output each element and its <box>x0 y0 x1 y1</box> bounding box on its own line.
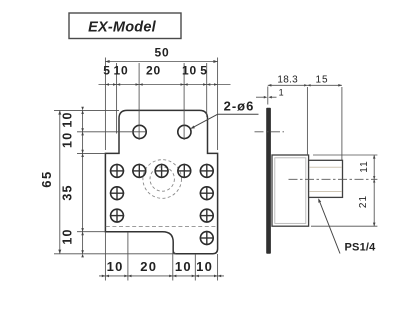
svg-text:10: 10 <box>114 64 129 78</box>
svg-text:5: 5 <box>103 64 110 78</box>
svg-text:10: 10 <box>182 64 197 78</box>
svg-text:10: 10 <box>175 259 192 274</box>
svg-text:65: 65 <box>39 170 54 187</box>
svg-text:10: 10 <box>196 259 213 274</box>
svg-text:35: 35 <box>61 184 75 200</box>
svg-text:11: 11 <box>359 160 370 172</box>
svg-text:10: 10 <box>61 111 75 127</box>
svg-text:PS1/4: PS1/4 <box>345 242 377 254</box>
svg-text:18.3: 18.3 <box>277 75 298 86</box>
svg-text:5: 5 <box>200 64 207 78</box>
svg-text:20: 20 <box>140 259 157 274</box>
svg-text:2-ø6: 2-ø6 <box>224 99 255 114</box>
svg-text:10: 10 <box>61 132 75 148</box>
svg-text:EX-Model: EX-Model <box>88 20 156 36</box>
svg-text:20: 20 <box>146 64 161 78</box>
svg-text:10: 10 <box>107 259 124 274</box>
svg-text:15: 15 <box>315 75 328 86</box>
svg-text:50: 50 <box>155 46 170 60</box>
svg-text:1: 1 <box>279 88 285 98</box>
svg-text:21: 21 <box>358 195 369 208</box>
svg-text:10: 10 <box>61 228 75 244</box>
